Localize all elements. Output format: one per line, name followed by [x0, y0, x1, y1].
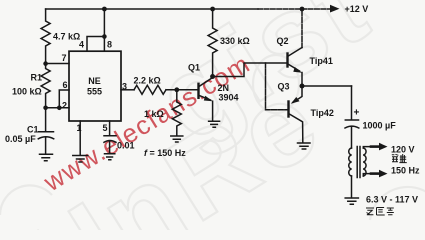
wire top rail	[46, 8, 258, 10]
svg-text:5: 5	[103, 123, 108, 133]
capacitor 0.01	[104, 136, 116, 154]
wire secondary top	[363, 147, 371, 148]
svg-text:330 kΩ: 330 kΩ	[220, 36, 250, 46]
CJK glyph approximations: 变压器 (transformer)	[366, 208, 394, 216]
svg-text:Q3: Q3	[278, 82, 290, 92]
ground pin1	[73, 156, 88, 163]
svg-text:2: 2	[62, 101, 67, 111]
junction pin4-8 bracket	[102, 34, 107, 39]
svg-text:R1: R1	[31, 73, 43, 83]
transformer primary coil	[349, 148, 352, 176]
svg-text:NE: NE	[88, 76, 101, 86]
svg-text:1000 µF: 1000 µF	[363, 121, 397, 131]
junction rail/330k	[210, 7, 215, 12]
ground transformer	[345, 198, 358, 204]
transistor Q2 Tip41	[286, 54, 288, 67]
svg-text:0.05 µF: 0.05 µF	[5, 134, 36, 144]
svg-text:0.01: 0.01	[117, 141, 135, 151]
wire output node to cap	[302, 85, 352, 87]
arrowhead Q1 emitter	[204, 96, 213, 102]
svg-text:2N: 2N	[218, 83, 230, 93]
svg-text:f = 150 Hz: f = 150 Hz	[144, 148, 186, 158]
svg-text:6.3 V - 117 V: 6.3 V - 117 V	[366, 195, 418, 205]
junction 4.7k/R1/pin7	[43, 61, 48, 66]
svg-text:2.2 kΩ: 2.2 kΩ	[134, 76, 161, 86]
transformer secondary coil	[363, 148, 366, 176]
svg-text:3904: 3904	[219, 93, 239, 103]
svg-text:1 kΩ: 1 kΩ	[144, 109, 164, 119]
svg-text:100 kΩ: 100 kΩ	[12, 87, 42, 97]
CJK glyph approximations: 输出 (output)	[392, 154, 407, 163]
ground below Q3	[298, 143, 311, 149]
wire pin1 to ground	[79, 121, 81, 155]
svg-text:6: 6	[63, 80, 68, 90]
IC U1 NE555	[69, 51, 121, 121]
svg-text:+12 V: +12 V	[345, 4, 369, 14]
arrowhead Q3 emitter	[291, 97, 300, 104]
wire Q1 collector to bases	[213, 63, 288, 77]
junction Q1 collector/330k	[210, 74, 215, 79]
junction 2.2k/1k	[174, 87, 179, 92]
arrowhead Q2 emitter	[293, 67, 302, 73]
wire primary bottom to ground	[351, 176, 353, 198]
ground below 0.01	[105, 154, 115, 160]
svg-text:Tip42: Tip42	[311, 108, 334, 118]
wire secondary bottom	[363, 174, 371, 176]
svg-text:1: 1	[77, 123, 82, 133]
ground below Q1	[209, 121, 220, 127]
transformer core	[357, 147, 360, 178]
capacitor 1000uF	[345, 86, 359, 148]
wire pin7	[46, 63, 69, 65]
junction R1/C1	[43, 106, 48, 111]
svg-text:Q2: Q2	[277, 36, 289, 46]
ground below 1k	[171, 136, 183, 142]
resistor 2.2k	[134, 85, 166, 94]
wire pin5	[109, 121, 111, 136]
svg-text:120 V: 120 V	[391, 145, 415, 155]
wire pin3	[121, 89, 134, 91]
arrowhead secondary bottom	[379, 170, 388, 178]
arrowhead secondary top	[379, 143, 388, 151]
arrowhead +12V	[330, 5, 340, 13]
svg-text:4: 4	[79, 40, 84, 50]
svg-text:3: 3	[122, 82, 127, 92]
resistor R1	[41, 64, 50, 108]
svg-text:7: 7	[62, 53, 67, 63]
svg-text:Q1: Q1	[188, 63, 200, 73]
resistor 1k	[172, 90, 181, 136]
junction rail/Q2 collector	[300, 7, 305, 12]
transistor Q1 2N3904	[197, 84, 199, 98]
node output Q2/Q3 emitters	[300, 84, 305, 89]
wire pin2/pin6 bracket	[46, 90, 69, 108]
junction pin2/pin6	[57, 106, 62, 111]
junction rail/pin4-8 drop	[102, 7, 107, 12]
svg-text:Tip41: Tip41	[310, 56, 333, 66]
wire to Q1 base	[166, 89, 199, 91]
svg-text:+: +	[354, 108, 360, 119]
transistor Q3 Tip42	[287, 102, 289, 117]
resistor 330k	[208, 9, 217, 77]
svg-text:C1: C1	[27, 125, 39, 135]
wire 555 supply bracket pins 4,8	[87, 9, 105, 51]
svg-text:150 Hz: 150 Hz	[391, 166, 420, 176]
svg-text:4.7 kΩ: 4.7 kΩ	[53, 32, 80, 42]
resistor 4.7k	[41, 9, 50, 64]
capacitor C1	[38, 108, 53, 154]
ground below C1	[40, 154, 53, 161]
svg-text:8: 8	[107, 40, 112, 50]
svg-text:555: 555	[87, 87, 102, 97]
